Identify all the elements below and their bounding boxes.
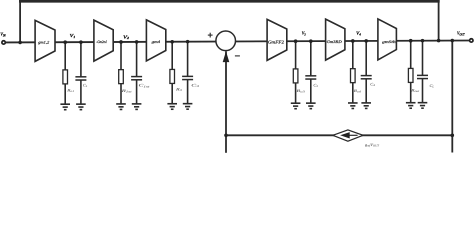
- svg-text:-Gm2nd: -Gm2nd: [96, 40, 106, 44]
- svg-text:gm1,2: gm1,2: [38, 40, 49, 44]
- svg-text:gm5th: gm5th: [382, 40, 396, 44]
- svg-text:GmFF2: GmFF2: [268, 40, 285, 45]
- svg-text:C3: C3: [191, 84, 200, 89]
- svg-text:Ro4: Ro4: [352, 89, 361, 94]
- svg-text:Gm3RD: Gm3RD: [327, 40, 342, 44]
- svg-text:Ro3: Ro3: [295, 89, 306, 94]
- svg-text:gm4: gm4: [152, 40, 161, 44]
- svg-text:CL: CL: [430, 84, 435, 89]
